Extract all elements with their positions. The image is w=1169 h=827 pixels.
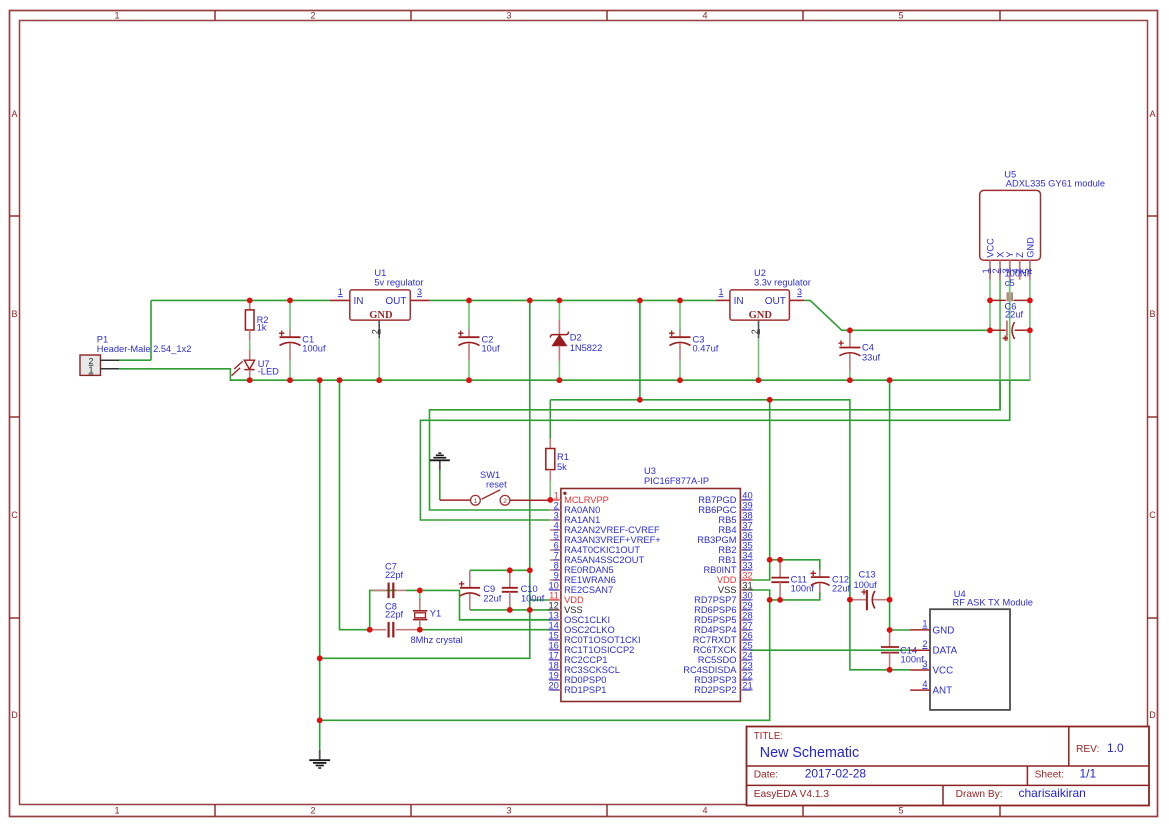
U3 pin 21 (RD2PSP2) xyxy=(694,680,753,695)
svg-text:B: B xyxy=(11,309,17,319)
svg-text:C9: C9 xyxy=(483,584,495,594)
U3 pin 40 (RB7PGD) xyxy=(698,490,752,505)
svg-text:13: 13 xyxy=(548,610,558,620)
capacitor C9 22uf xyxy=(459,570,502,610)
svg-text:GND: GND xyxy=(749,310,773,321)
wire U5 X lower xyxy=(999,380,1001,410)
svg-text:22uf: 22uf xyxy=(483,594,502,604)
wire crystal GND leg xyxy=(340,380,375,630)
U3 pin 25 (RC6TXCK) xyxy=(693,640,753,655)
U3 pin 14 (OSC2CLKO) xyxy=(548,620,614,635)
svg-text:10: 10 xyxy=(548,580,558,590)
svg-text:3: 3 xyxy=(922,659,927,669)
svg-text:29: 29 xyxy=(742,600,752,610)
svg-text:11: 11 xyxy=(549,590,559,600)
svg-text:22pf: 22pf xyxy=(385,570,404,580)
U3 pin 11 (VDD) xyxy=(549,590,584,605)
capacitor C5 100NF xyxy=(1005,268,1033,301)
svg-text:3: 3 xyxy=(506,806,511,816)
wire/net C6 line (pin1-pin5) xyxy=(990,329,1030,331)
svg-text:4: 4 xyxy=(554,520,559,530)
capacitor C11 100nf xyxy=(771,560,814,600)
svg-text:RA2AN2VREF-CVREF: RA2AN2VREF-CVREF xyxy=(564,525,660,535)
svg-text:RA3AN3VREF+VREF+: RA3AN3VREF+VREF+ xyxy=(564,535,661,545)
svg-text:Sheet:: Sheet: xyxy=(1035,769,1064,780)
svg-text:RE2CSAN7: RE2CSAN7 xyxy=(564,585,613,595)
junction GND rail xyxy=(247,377,253,383)
svg-text:EasyEDA V4.1.3: EasyEDA V4.1.3 xyxy=(754,789,830,800)
svg-text:RD2PSP2: RD2PSP2 xyxy=(694,685,736,695)
svg-text:1: 1 xyxy=(89,365,94,375)
junction U4 GND node xyxy=(887,627,893,633)
svg-text:DATA: DATA xyxy=(933,646,958,657)
capacitor C2 xyxy=(458,300,500,380)
capacitor C8 22pf xyxy=(372,601,419,637)
junction GND rail xyxy=(756,377,762,383)
svg-text:23: 23 xyxy=(742,660,752,670)
wire OSC1 jog to pin13 xyxy=(460,619,550,621)
U3 pin 29 (RD6PSP6) xyxy=(694,600,753,615)
junction top rail xyxy=(247,298,253,304)
svg-text:100uf: 100uf xyxy=(302,343,326,353)
svg-text:RB5: RB5 xyxy=(718,515,736,525)
svg-text:2: 2 xyxy=(554,500,559,510)
svg-text:RB1: RB1 xyxy=(718,555,736,565)
junction top rail xyxy=(637,298,643,304)
svg-text:25: 25 xyxy=(742,640,752,650)
junction C11 bottom xyxy=(777,597,783,603)
svg-text:RB4: RB4 xyxy=(718,525,736,535)
junction VSS to GND xyxy=(317,655,323,661)
junction 5V line xyxy=(527,567,533,573)
U3 pin 35 (RB2) xyxy=(718,540,752,555)
resistor R1 5k xyxy=(546,439,569,481)
svg-text:4: 4 xyxy=(922,679,927,689)
svg-text:5: 5 xyxy=(898,806,903,816)
wire main GND vertical xyxy=(319,380,321,750)
svg-text:1: 1 xyxy=(338,287,343,297)
svg-text:36: 36 xyxy=(742,530,752,540)
svg-text:A: A xyxy=(11,109,17,119)
svg-text:B: B xyxy=(1149,309,1155,319)
svg-text:VDD: VDD xyxy=(564,595,584,605)
junction C10 top xyxy=(507,567,513,573)
svg-text:4: 4 xyxy=(702,11,707,21)
U4 pin 3 (VCC) xyxy=(910,659,953,677)
svg-text:RA1AN1: RA1AN1 xyxy=(564,515,600,525)
wire C11/C12 top line xyxy=(770,560,820,570)
svg-text:24: 24 xyxy=(742,650,752,660)
junction C11 top xyxy=(777,557,783,563)
svg-text:8: 8 xyxy=(554,560,559,570)
svg-text:Header-Male 2.54_1x2: Header-Male 2.54_1x2 xyxy=(97,344,192,354)
U3 pin 15 (RC0T1OSOT1CKI) xyxy=(548,630,640,645)
U3 pin 26 (RC7RXDT) xyxy=(693,630,753,645)
svg-text:37: 37 xyxy=(742,520,752,530)
svg-text:21: 21 xyxy=(742,680,752,690)
svg-text:VCC: VCC xyxy=(933,665,954,676)
svg-text:C: C xyxy=(1149,510,1156,520)
junction GND rail xyxy=(376,377,382,383)
svg-text:C: C xyxy=(11,510,18,520)
svg-text:1: 1 xyxy=(114,11,119,21)
svg-text:RB0INT: RB0INT xyxy=(703,565,736,575)
svg-text:34: 34 xyxy=(742,550,752,560)
wire P1 pin2 to VIN xyxy=(119,300,151,360)
junction top rail xyxy=(466,298,472,304)
wire C11/C12 bottom line xyxy=(770,592,820,600)
U3 pin 2 (RA0AN0) xyxy=(550,500,600,515)
wire OSC2 to Y1/C8 xyxy=(420,629,550,631)
svg-text:5k: 5k xyxy=(557,462,567,472)
svg-text:22uf: 22uf xyxy=(1005,310,1024,320)
U5 pin 2 (X) xyxy=(991,252,1005,280)
wire P1 pin1 to GND rail xyxy=(119,369,250,380)
wire U3 pin31 VSS down xyxy=(751,590,770,600)
svg-text:D: D xyxy=(11,710,18,720)
svg-text:6: 6 xyxy=(554,540,559,550)
svg-text:15: 15 xyxy=(548,630,558,640)
svg-text:C10: C10 xyxy=(521,584,538,594)
svg-text:31: 31 xyxy=(742,580,752,590)
junction VDD line xyxy=(637,397,643,403)
capacitor C4 33uf xyxy=(838,330,880,380)
svg-text:RB3PGM: RB3PGM xyxy=(697,535,736,545)
svg-text:26: 26 xyxy=(742,630,752,640)
wire C7 line xyxy=(374,589,396,591)
svg-text:1N5822: 1N5822 xyxy=(570,343,603,353)
svg-text:33uf: 33uf xyxy=(862,353,881,363)
wire U3 pin11 VDD xyxy=(530,599,550,601)
svg-text:22: 22 xyxy=(742,670,752,680)
U3 pin 30 (RD7PSP7) xyxy=(694,590,753,605)
U5 pin 1 (VCC) xyxy=(981,238,995,280)
U3 pin 36 (RB3PGM) xyxy=(697,530,752,545)
svg-text:12: 12 xyxy=(548,600,558,610)
U3 pin 9 (RE1WRAN6) xyxy=(550,570,616,585)
regulator U2 (3.3v) xyxy=(716,268,811,338)
svg-text:c5: c5 xyxy=(1005,278,1015,288)
capacitor C7 22pf xyxy=(372,562,407,599)
U3 pin 13 (OSC1CLKI) xyxy=(548,610,610,625)
svg-text:5: 5 xyxy=(554,530,559,540)
U4 pin 2 (DATA) xyxy=(910,639,957,657)
U3 pin 33 (RB0INT) xyxy=(703,560,752,575)
svg-text:2: 2 xyxy=(371,329,381,334)
wire OSC1 to Y1/C7 xyxy=(406,590,550,620)
svg-text:D: D xyxy=(1149,710,1156,720)
wire VDD drop to C11/C12 xyxy=(769,400,771,560)
capacitor C1 xyxy=(279,300,326,380)
junction GND bottom xyxy=(317,717,323,723)
junction C7 gnd leg xyxy=(367,627,373,633)
U3 pin 4 (RA2AN2VREF-CVREF) xyxy=(550,520,660,535)
junction C5 right xyxy=(1027,298,1033,304)
junction GND rail xyxy=(847,377,853,383)
svg-text:1: 1 xyxy=(981,268,991,273)
junction GND rail xyxy=(337,377,343,383)
svg-text:RC5SDO: RC5SDO xyxy=(698,655,737,665)
svg-text:OSC1CLKI: OSC1CLKI xyxy=(564,615,610,625)
junction top rail xyxy=(557,298,563,304)
svg-text:100NF: 100NF xyxy=(1005,268,1033,278)
wire 5V rail to VDD line xyxy=(639,300,641,399)
svg-text:3.3v regulator: 3.3v regulator xyxy=(754,278,811,288)
svg-text:32: 32 xyxy=(742,570,752,580)
junction U4 VCC node xyxy=(887,667,893,673)
svg-text:RD1PSP1: RD1PSP1 xyxy=(564,685,606,695)
wire U5 X upper xyxy=(999,280,1001,301)
wire U5 Y lower xyxy=(1009,380,1011,420)
capacitor C12 22uf xyxy=(811,570,851,594)
svg-text:2: 2 xyxy=(503,498,507,505)
svg-text:8Mhz crystal: 8Mhz crystal xyxy=(411,635,463,645)
svg-text:22pf: 22pf xyxy=(385,610,404,620)
svg-text:U2: U2 xyxy=(754,268,766,278)
U3 pin 18 (RC3SCKSCL) xyxy=(548,660,619,675)
svg-text:RD6PSP6: RD6PSP6 xyxy=(694,605,736,615)
U3 pin 28 (RD5PSP5) xyxy=(694,610,753,625)
module U4 RF ASK TX body xyxy=(930,589,1033,710)
svg-text:1k: 1k xyxy=(257,323,267,333)
svg-text:RB7PGD: RB7PGD xyxy=(698,495,737,505)
junction top rail xyxy=(527,298,533,304)
wire U1 GND pin to rail xyxy=(378,338,380,380)
svg-text:RC2CCP1: RC2CCP1 xyxy=(564,655,607,665)
svg-text:RE0RDAN5: RE0RDAN5 xyxy=(564,565,614,575)
wire U2 GND pin to rail xyxy=(758,338,760,380)
connector P1 Header-Male 2.54_1x2 xyxy=(80,335,191,376)
svg-text:IN: IN xyxy=(734,296,744,307)
junction GND rail xyxy=(317,377,323,383)
junction top rail xyxy=(677,298,683,304)
U3 pin 32 (VDD) xyxy=(717,570,753,585)
svg-text:RC0T1OSOT1CKI: RC0T1OSOT1CKI xyxy=(564,635,640,645)
svg-text:-LED: -LED xyxy=(258,367,279,377)
svg-text:RC1T1OSICCP2: RC1T1OSICCP2 xyxy=(564,645,634,655)
svg-text:100nf: 100nf xyxy=(901,655,925,665)
wire Y1 top lead xyxy=(419,590,421,598)
svg-text:9: 9 xyxy=(554,570,559,580)
svg-text:3: 3 xyxy=(797,287,802,297)
U3 pin 6 (RA4T0CKIC1OUT) xyxy=(550,540,641,555)
junction 3.3V C4 xyxy=(847,327,853,333)
svg-text:C4: C4 xyxy=(862,343,874,353)
U3 pin 5 (RA3AN3VREF+VREF+) xyxy=(550,530,661,545)
junction C11 top line xyxy=(767,557,773,563)
svg-text:33: 33 xyxy=(742,560,752,570)
svg-text:D2: D2 xyxy=(570,333,582,343)
svg-text:2: 2 xyxy=(310,806,315,816)
junction U5 VCC xyxy=(987,327,993,333)
U5 pin 5 (GND) xyxy=(1021,237,1035,280)
junction Y1 bottom xyxy=(417,627,423,633)
svg-text:100nf: 100nf xyxy=(521,594,545,604)
svg-text:7: 7 xyxy=(554,550,559,560)
junction C13 left xyxy=(847,597,853,603)
junction GND rail xyxy=(287,377,293,383)
crystal Y1 8Mhz xyxy=(411,598,463,645)
svg-text:RF ASK TX Module: RF ASK TX Module xyxy=(953,598,1033,608)
svg-text:ADXL335 GY61 module: ADXL335 GY61 module xyxy=(1006,178,1105,188)
U3 pin 3 (RA1AN1) xyxy=(550,510,600,525)
wire 3.3V from U2 OUT xyxy=(804,300,990,330)
svg-text:2: 2 xyxy=(750,329,760,334)
wire RA1 to U5 Y xyxy=(420,280,1009,520)
svg-text:VSS: VSS xyxy=(718,585,737,595)
U3 pin 27 (RD4PSP4) xyxy=(694,620,753,635)
junction Y1 top xyxy=(417,588,423,594)
svg-text:35: 35 xyxy=(742,540,752,550)
wire 5V line above C9/C10 xyxy=(470,569,530,571)
wire VDD line y400 xyxy=(550,400,850,600)
svg-text:RA0AN0: RA0AN0 xyxy=(564,505,600,515)
svg-text:A: A xyxy=(1149,109,1155,119)
title block xyxy=(747,727,1150,806)
svg-text:100uf: 100uf xyxy=(854,580,878,590)
junction GND rail xyxy=(887,377,893,383)
U3 pin 16 (RC1T1OSICCP2) xyxy=(548,640,634,655)
U4 pin 4 (ANT) xyxy=(910,679,952,697)
module U5 ADXL335 GY61 body xyxy=(980,169,1105,260)
svg-text:2: 2 xyxy=(922,639,927,649)
svg-text:OUT: OUT xyxy=(385,296,406,307)
svg-text:40: 40 xyxy=(742,490,752,500)
U5 pin 4 (Z) xyxy=(1011,252,1025,280)
wire U3 pin32 VDD up xyxy=(751,560,770,580)
svg-text:RD7PSP7: RD7PSP7 xyxy=(694,595,736,605)
svg-text:VSS: VSS xyxy=(564,605,583,615)
wire C7 left to GND leg xyxy=(370,590,374,629)
svg-text:IN: IN xyxy=(354,296,364,307)
regulator U1 (5v) xyxy=(330,268,430,338)
svg-text:RE1WRAN6: RE1WRAN6 xyxy=(564,575,616,585)
switch SW1 reset xyxy=(440,470,548,505)
ground (inverted, at SW1) xyxy=(430,453,450,470)
capacitor C10 100nf xyxy=(502,572,545,610)
svg-text:2017-02-28: 2017-02-28 xyxy=(805,766,867,780)
LED U7 xyxy=(232,350,280,380)
svg-text:RB6PGC: RB6PGC xyxy=(698,505,737,515)
resistor R2 1k xyxy=(245,300,268,340)
wire VIN rail top xyxy=(151,299,330,301)
capacitor C3 xyxy=(669,300,719,380)
svg-text:MCLRVPP: MCLRVPP xyxy=(564,495,609,505)
svg-text:1: 1 xyxy=(114,806,119,816)
U3 pin 1 (MCLRVPP) xyxy=(550,490,609,505)
svg-text:GND: GND xyxy=(1025,237,1035,258)
junction GND rail xyxy=(557,377,563,383)
svg-text:1: 1 xyxy=(718,287,723,297)
U3 pin 17 (RC2CCP1) xyxy=(548,650,607,665)
diode D2 1N5822 (schottky) xyxy=(550,300,602,380)
wire U4 GND pin xyxy=(890,629,911,631)
svg-text:Z: Z xyxy=(1015,252,1025,258)
svg-text:3: 3 xyxy=(506,11,511,21)
U3 pin 24 (RC5SDO) xyxy=(698,650,753,665)
svg-text:RC3SCKSCL: RC3SCKSCL xyxy=(564,665,620,675)
svg-text:RD4PSP4: RD4PSP4 xyxy=(694,625,736,635)
svg-text:REV:: REV: xyxy=(1076,744,1099,755)
U3 pin 31 (VSS) xyxy=(718,580,753,595)
junction C11 bottom line xyxy=(767,597,773,603)
svg-text:22uf: 22uf xyxy=(832,583,851,593)
junction GND rail xyxy=(466,377,472,383)
svg-text:PIC16F877A-IP: PIC16F877A-IP xyxy=(644,476,709,486)
capacitor C13 100uf xyxy=(850,569,890,610)
svg-text:X: X xyxy=(995,252,1005,258)
svg-text:RA5AN4SSC2OUT: RA5AN4SSC2OUT xyxy=(564,555,644,565)
wire 5V drop to C9/C10 and VSS link xyxy=(320,300,530,658)
U3 pin 34 (RB1) xyxy=(718,550,752,565)
wire R1 top xyxy=(549,400,551,439)
svg-text:4: 4 xyxy=(702,806,707,816)
U3 pin 12 (VSS) xyxy=(548,600,582,615)
svg-text:RB2: RB2 xyxy=(718,545,736,555)
junction VDD line x770 xyxy=(767,397,773,403)
wire DATA U3 pin25 to U4 xyxy=(751,649,911,651)
junction C13 right xyxy=(887,597,893,603)
junction GND rail xyxy=(677,377,683,383)
svg-text:18: 18 xyxy=(548,660,558,670)
svg-text:5: 5 xyxy=(898,11,903,21)
U5 pin 3 (Y) xyxy=(1001,252,1015,280)
U3 pin 10 (RE2CSAN7) xyxy=(548,580,613,595)
U3 pin 23 (RC4SDISDA) xyxy=(683,660,752,675)
wire R2 to U7 xyxy=(249,341,251,351)
svg-text:Y: Y xyxy=(1005,252,1015,258)
svg-text:39: 39 xyxy=(742,500,752,510)
junction C10 bottom xyxy=(507,607,513,613)
U3 pin 38 (RB5) xyxy=(718,510,752,525)
svg-text:OUT: OUT xyxy=(765,296,786,307)
svg-text:38: 38 xyxy=(742,510,752,520)
U4 pin 1 (GND) xyxy=(910,619,954,637)
wire U5 Y upper xyxy=(1009,280,1011,380)
svg-text:reset: reset xyxy=(486,480,507,490)
svg-text:C13: C13 xyxy=(859,569,876,579)
wire Y1 bottom lead xyxy=(419,625,421,630)
svg-text:GND: GND xyxy=(933,625,955,636)
svg-text:RD3PSP3: RD3PSP3 xyxy=(694,675,736,685)
capacitor C6 22uf xyxy=(1003,301,1024,341)
U3 pin 8 (RE0RDAN5) xyxy=(550,560,614,575)
svg-text:3: 3 xyxy=(554,510,559,520)
svg-text:U1: U1 xyxy=(374,268,386,278)
wire GND rail xyxy=(230,379,1030,381)
U3 pin 20 (RD1PSP1) xyxy=(548,680,606,695)
U3 pin 37 (RB4) xyxy=(718,520,752,535)
svg-text:20: 20 xyxy=(548,680,558,690)
svg-text:2: 2 xyxy=(991,268,1001,273)
svg-text:1/1: 1/1 xyxy=(1080,766,1097,780)
U3 pin 39 (RB6PGC) xyxy=(698,500,752,515)
junction C5 left xyxy=(987,298,993,304)
svg-text:1.0: 1.0 xyxy=(1107,741,1124,755)
wire 5V to U4 VCC xyxy=(850,600,910,670)
svg-text:28: 28 xyxy=(742,610,752,620)
svg-text:1: 1 xyxy=(922,619,927,629)
svg-text:5v regulator: 5v regulator xyxy=(374,278,423,288)
svg-text:R1: R1 xyxy=(557,452,569,462)
wire GND drop right xyxy=(889,380,891,630)
svg-text:TITLE:: TITLE: xyxy=(754,731,783,742)
wire/net C5 line (pin1-pin5) xyxy=(990,299,1030,301)
svg-text:10uf: 10uf xyxy=(482,343,501,353)
svg-text:30: 30 xyxy=(742,590,752,600)
junction VSS line xyxy=(527,607,533,613)
svg-text:RA4T0CKIC1OUT: RA4T0CKIC1OUT xyxy=(564,545,640,555)
